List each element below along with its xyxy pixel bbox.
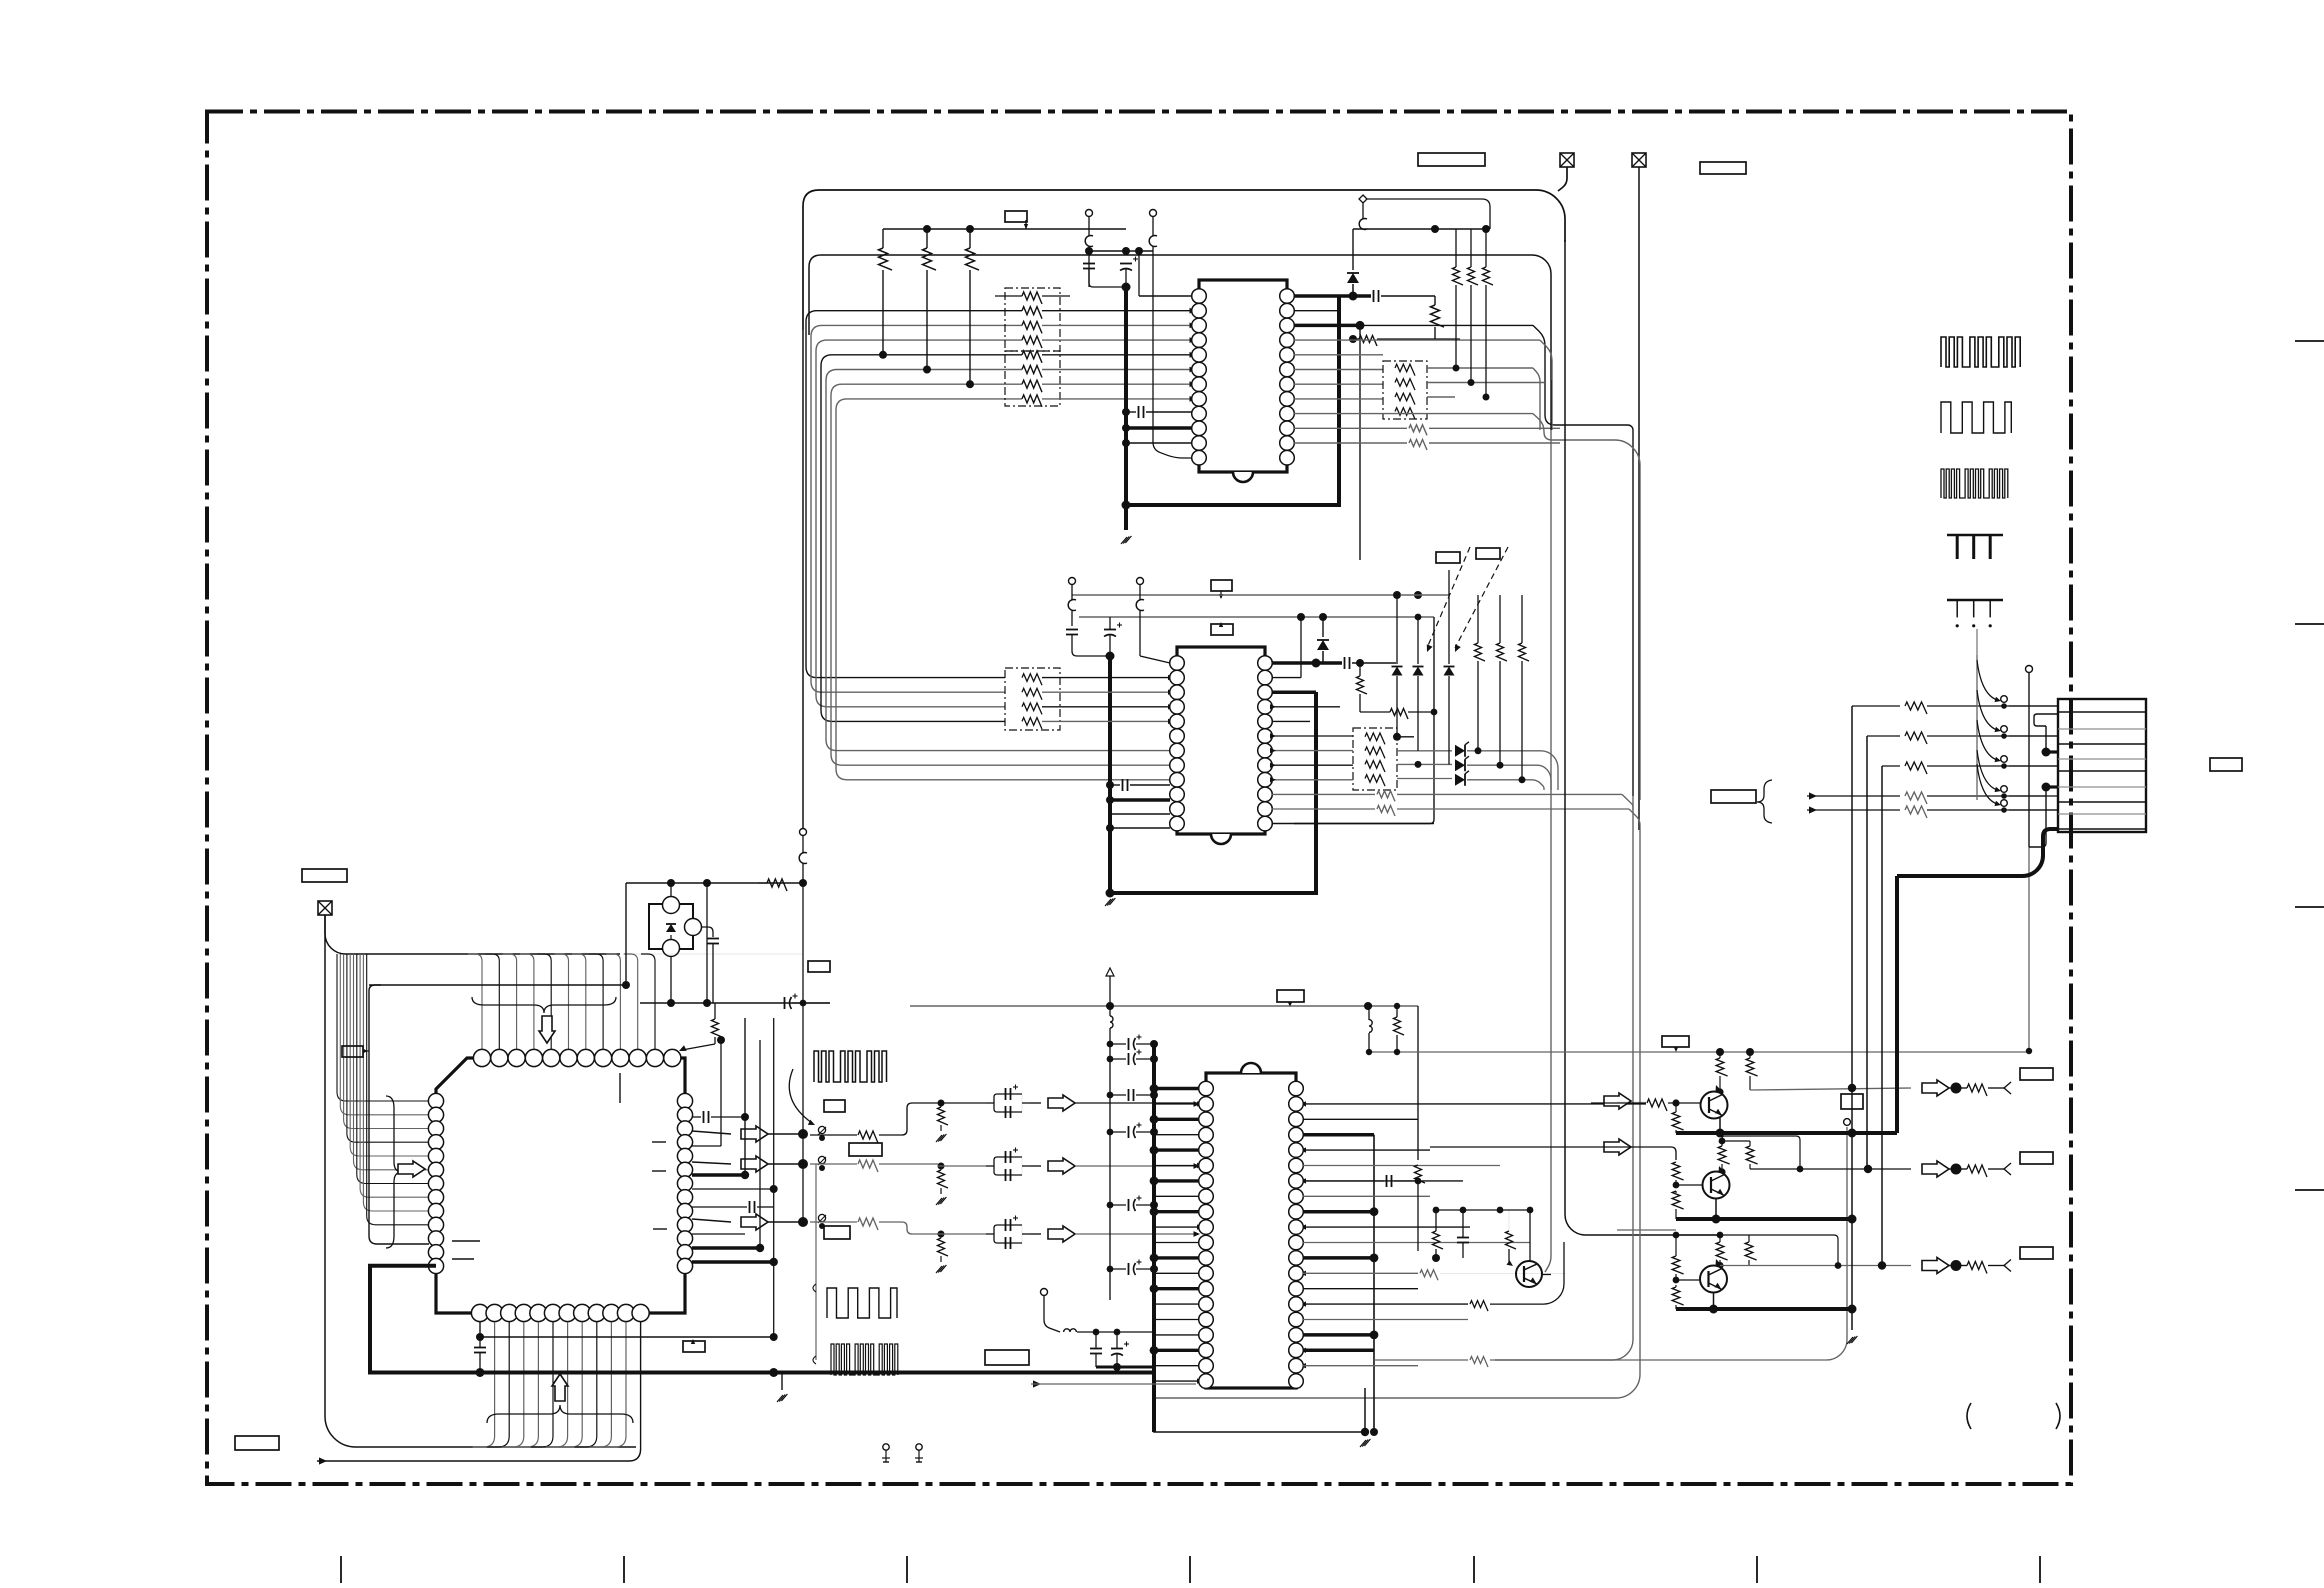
wire C11/C12 to gnd bus [1088,269,1090,279]
wire pin11 IC2 [1110,813,1170,815]
thick gnd wire QFP lower-left [370,1266,436,1373]
switch SW2 [818,1156,825,1163]
Q4 emitter resistor wire [1303,1272,1418,1274]
IC1 pins left [1192,289,1207,304]
cap C23 pin9 [1122,779,1124,791]
wire C21 to gnd bus [1072,645,1110,656]
Q4 collector wire up [1541,1274,1551,1276]
gray rail above IC3 [910,1005,1418,1007]
junction dots on gnd bus [1122,408,1130,416]
Q4 sub-circuit resistors [1433,1231,1444,1249]
label above IC2 [1211,580,1232,591]
wire pin12 IC2 to rect loop [1272,823,1434,825]
row wires w resistors [1852,705,1900,707]
wire w resistor to right low [1303,1349,1374,1353]
IC2 pins10-11 wires w resistors going right [1272,793,1375,795]
top rail wire to pull resistors [883,228,1126,230]
IC2 body [1177,647,1265,834]
wire rail to bias [1716,1048,1724,1056]
vertical drops from connector rows to transistor rows [1851,706,1853,1330]
cap C21 [1066,629,1078,631]
wire pin2 right [1294,310,1339,312]
transistor Q2 [1703,1172,1730,1199]
IC1 pins right [1280,289,1295,304]
bus wire [826,370,1170,751]
right edge registration ticks [2295,340,2324,342]
pack resistor [1022,292,1042,304]
thick wire pin3 IC2 [1272,690,1316,694]
transistor Q1 [1701,1092,1728,1119]
IC3 pins left [1199,1081,1214,1096]
QFP right misc wires [692,1145,721,1147]
wire net under QFP bottom [479,1322,481,1337]
ecap C52 [1111,1348,1123,1350]
corridor curves from IC1 right [1533,325,1633,796]
cap C31 [707,938,719,940]
bead L2 [1149,236,1157,247]
wire T1 down [1088,216,1090,236]
thick IC3 right wires [1303,1133,1374,1137]
waveform W4 pulses [1947,534,2003,537]
big loop left edge down to QFP region [802,330,804,830]
IC2 bottom notch [1211,834,1231,844]
diode trio above pack RD [1392,667,1403,676]
rail corner down right of IC3 [1417,1006,1419,1160]
X1 bottom lead [670,956,672,1003]
connector pins [2058,711,2146,713]
cap pair CP2 [986,1165,994,1167]
corridor vertical x1566 to Q3 top rail [1565,240,1720,1235]
rect loop wire right of IC2 [1294,617,1434,824]
gray vertical from SW2/SW3 to waveforms [815,1164,817,1360]
arrow into Q1 stage [1617,1101,1646,1103]
wires IC2 pins5-9 to pack RD [1272,720,1310,722]
QFP right arrows row2 [692,1162,731,1164]
wire R11 down to bus [882,270,884,355]
IC3 bottom gnd loop [1154,1388,1365,1432]
pack resistor [1022,380,1042,392]
Q2 collector wire [1718,1168,1725,1175]
QFP pins top [473,1049,490,1066]
QFP pins right [677,1093,692,1108]
QFP right arrows row1 [692,1131,731,1134]
resistor pack RA1 box [1005,288,1060,351]
reset node rail [640,1002,830,1004]
middle vertical gnd line [1844,1119,1851,1126]
label CN feed [1711,790,1756,803]
switch SW3 [818,1214,825,1221]
Q3 base lower resistor [1672,1287,1683,1305]
label SW2 [849,1143,882,1156]
vertical resistors trio R23-25 [1475,643,1486,661]
cap C14 [1373,290,1375,302]
wire pin2 right IC2 [1272,677,1301,679]
X-mark terminal J3 [318,901,332,915]
input arrow bottom [1033,1380,1041,1387]
resonator top rail [626,882,803,884]
bead L7 [1064,1329,1077,1332]
IC1 ground bus thick vertical [1124,287,1128,530]
IC2 gnd symbol [1105,899,1111,906]
reset line trunk horizontal [369,984,626,986]
pack resistor [1395,393,1415,404]
bottom bus input wire to pin12 [319,1457,327,1464]
wire bus inner loop (top) [809,255,1551,380]
label on reset vertical [342,1046,363,1057]
label SYSCON [1418,153,1485,166]
resistor on 1418 line [1415,1165,1426,1183]
pack resistor [1365,761,1385,772]
curved branch arrows [1976,655,1978,800]
vertical from reset trunk up to resonator rail [625,883,627,985]
resistor R21v [1357,676,1368,694]
corridor vertical x1633 to IC3 area [1495,796,1633,1360]
pack resistor [1022,674,1042,685]
waveform W7 square [827,1288,897,1318]
brace CN feed [1757,780,1772,823]
QFP body [436,1058,685,1313]
Q3 stage feed [1617,1229,1676,1231]
IC2 pins left [1170,656,1185,671]
thick wire IC2 pin1 right [1272,661,1342,665]
gnd under Q stages [1847,1337,1853,1344]
reset IC X1 box [649,904,693,949]
diode D21 [1317,640,1329,650]
resistor pack RB box [1383,361,1427,419]
pack resistor [1022,718,1042,729]
waveform W8 burst [831,1344,898,1375]
ecap [1128,1126,1130,1138]
switch SW1 [818,1126,825,1133]
QFP pins bottom [471,1304,488,1321]
thick vertical to connector [1895,876,1899,1133]
label under QFP right [683,1341,705,1352]
Q2 emitter thick bus [1676,1217,1852,1221]
wire R12 down to bus [926,270,928,370]
pack resistor [1022,321,1042,333]
bus wire [806,311,1022,678]
wire pin10 long right [1294,413,1533,415]
Q1 base resistor [1591,1102,1646,1104]
block arrow up into QFP bottom [552,1374,568,1401]
pack resistor [1365,733,1385,744]
output labels [2020,1068,2053,1080]
reset wire to QFP pin12 top w resistor [639,1002,641,1004]
label VCC1 above IC1 [1005,211,1027,222]
block arrow into QFP left [398,1161,425,1177]
two test points bottom [883,1444,889,1450]
X1 circle top [663,897,680,914]
Q1 emitter thick bus [1676,1131,1720,1135]
sw contact gap wires [2009,705,2058,707]
dots on IC2 gnd bus [1106,781,1114,789]
wire pin11 w resistor [1294,427,1407,429]
wire pin11 [1126,442,1192,444]
wire pin12 from T2 line [1153,296,1192,458]
vertical wires right of QFP [720,1040,722,1146]
label CN1 [2210,758,2242,771]
thick gnd loop under IC2 [1110,692,1316,893]
QFP right arrows row3 [692,1219,731,1222]
bus trunk J3 continues down left edge [325,915,636,1447]
wire pin12 IC2 [1110,827,1170,829]
wire from X-mark to loop corner [1558,167,1567,191]
cap C33 bottom left [474,1347,486,1349]
gray rail 1 above IC2 [1072,594,1397,596]
wires cap pairs to arrows [938,1102,986,1104]
Q2 base lower resistor [1672,1191,1683,1209]
IC3 top notch [1241,1063,1261,1073]
pack resistor [1022,703,1042,714]
rail above QFP to resonator [626,953,803,955]
X1 circle right [685,919,702,936]
ecap [1128,1038,1130,1050]
IC1 gnd [1121,537,1127,544]
wires pack RD onward right [1396,736,1398,738]
ecap C32 [784,997,786,1009]
left pack RC box [1005,668,1060,730]
QFP right pin wires: cap C41 [692,1116,701,1118]
terminal T2 open circle [1150,210,1157,217]
resistor R14 vertical [1431,305,1445,327]
pull resistor R11 vertical [879,248,893,270]
cap pair CP1 [986,1102,994,1104]
label mid Q area [1841,1094,1863,1109]
dashed pointer arrows [1427,547,1470,648]
pull resistor R12 vertical [923,248,937,270]
label above IC3 [1277,990,1304,1002]
Q1 collector wire right [1750,1088,1911,1090]
resistor R15 to rail [1359,336,1377,347]
resistor R22h [1390,709,1408,720]
label IC3 bottom left [985,1350,1029,1365]
pack resistor [1365,747,1385,758]
pack resistor [1022,351,1042,363]
QFP right cap C42 [692,1206,747,1208]
pack RD box right of IC2 [1353,728,1397,790]
input arrows CN feed [1809,792,1817,799]
label VDD [1700,162,1746,174]
IC3 lower right resistor wires [1303,1303,1468,1305]
pack resistor [1395,379,1415,390]
thick wire pin10 [1126,426,1192,430]
bead L4 [1068,600,1076,611]
thick wire pin3 [1294,324,1360,328]
X-mark terminal J2 [1632,153,1646,167]
wire bus outer loop (top) [803,190,1565,330]
Q1 base lower resistor [1672,1112,1683,1130]
reset distribution vertical x803 [802,883,804,1222]
label SW3 [824,1226,850,1239]
cap C51 [1090,1348,1102,1350]
wire pin12 w resistor [1294,442,1407,444]
waveform W1 [1941,337,2020,367]
wire pin1 left [1139,295,1192,297]
transistor Q4 [1516,1261,1542,1287]
terminal T5 + bead above x803 [800,829,807,836]
cap pair CP3 [986,1233,994,1235]
ecap [1128,1089,1130,1101]
waveform W6 burst near QFP [814,1051,887,1082]
top rail right of IC1 [1353,228,1486,230]
divider resistor RV2 [938,1170,949,1188]
three vertical resistors right R16-R18 [1453,267,1464,285]
brace left bus [386,1096,402,1248]
pack stub row top [995,295,1022,297]
IC3 left pin stub wires [1154,1087,1199,1090]
terminal T3 [1069,578,1076,585]
bus trunk from J3 (top of QFP) [325,915,620,954]
vertical wire x1360 down [1359,325,1361,560]
label bottom left corner [235,1436,279,1450]
bus wire [836,399,1170,780]
Q1 bias resistors [1716,1058,1727,1076]
resistor R52 [1394,1017,1405,1035]
bead L8 [1369,1020,1372,1033]
connector CN1 body [2058,699,2146,832]
IC1 body [1199,280,1287,472]
Q3 collector wire [1716,1262,1723,1269]
bead L1 [1085,236,1093,247]
IC2 ground bus thick [1108,656,1112,893]
wires into pins7-9 gray [1169,750,1171,752]
wire T4 to pin1 [1140,656,1170,663]
bead L3 [1359,219,1367,230]
wire power mark down [1109,976,1111,1006]
block arrow down into QFP top [539,1016,555,1043]
corridor vertical x1551 lower [1550,380,1552,430]
left bus branches to QFP left pins [337,954,429,1101]
terminal T4 [1137,578,1144,585]
pack resistor [1022,366,1042,378]
pack resistor [1022,395,1042,407]
wires pack RB to right corridor [1427,367,1533,369]
divider resistor RV3 [938,1238,949,1256]
IC3 right side wires [1303,1103,1646,1105]
IC3 thick left bus [1152,1044,1156,1432]
brace bottom bus [487,1405,633,1423]
wires pins5-9 right to pack RB [1294,354,1383,356]
terminal above connector [2026,666,2033,673]
curved arrow from W6 to switch [789,1069,812,1123]
capacitor C11 [1083,263,1095,265]
corridor wire ends pins 11/12 [1559,427,1561,429]
cap C13 on pin9 [1138,406,1140,418]
transistor Q3 [1700,1266,1727,1293]
wire from TP1 [1367,199,1490,229]
X1 zener inside [666,924,676,932]
wires RC to IC2 pins 2-5 [1042,677,1170,679]
wire rail at y251 [1089,250,1153,252]
ecap [1128,1199,1130,1211]
X1 circle bottom [663,940,680,957]
pack resistor [1365,775,1385,786]
IC3 gnd [1360,1440,1366,1447]
label top of Q1 stage [1662,1036,1689,1047]
thick bottom wire to IC3 [368,1371,1154,1375]
label above IC2 b [1211,624,1233,635]
ecap [1128,1053,1130,1065]
gnd wire under caps [1096,1366,1154,1369]
Q3 emitter thick bus [1676,1307,1852,1311]
divider resistor RV1 [938,1107,949,1125]
IC3 pins right [1289,1081,1304,1096]
top bus branches to QFP top pins [468,954,482,1049]
Q1 collector node [1716,1088,1723,1095]
wire R13 down to bus [969,270,971,384]
IC1 bottom notch [1233,472,1253,482]
corridor vertical x1640 to IC3 bottom [1154,830,1640,1398]
gnd stub [781,1373,783,1391]
arrowheads on IC3 right pins [1300,1101,1306,1106]
wires zeners to corridor curves [1467,751,1558,790]
IC2 pins right [1258,656,1273,671]
QFP pins left [428,1093,443,1108]
IC3 bottom right gray resist wires [1374,1359,1468,1361]
label near J3 [302,869,347,882]
bottom bus branches from trunk to QFP bottom pins [473,1322,495,1447]
gray rail 2 above IC2 [1079,616,1434,618]
diode D11 [1347,273,1359,283]
QFP thick wire row3 [692,1173,745,1177]
thick gnd loop under IC1 [1126,296,1339,505]
wires pack RA to IC1 pins 2-8 [1042,310,1192,312]
bus wire [811,325,1022,692]
brace top bus [472,997,616,1013]
page border (dash-dot frame) [207,112,2071,1485]
waveform W2 [1941,402,2011,433]
wire from W5 down to connector arrows [1976,629,1978,655]
bus wire [831,384,1170,765]
terminal T1 open circle [1086,210,1093,217]
arrowheads on input pins [1197,1101,1203,1106]
pack resistor [1022,688,1042,699]
wire T2 down [1152,216,1154,236]
wire pin4 right gray [1294,339,1540,341]
Q3 bias resistors [1716,1242,1727,1260]
Q2 stage top wire [1591,1147,1676,1160]
resistor pack RA2 box [1005,351,1060,406]
sideways zener diodes Z1-Z3 [1455,745,1465,757]
triangle power mark [1106,968,1114,976]
Q3 upper resistor [1672,1256,1683,1274]
cap C24 [1344,657,1346,669]
Q2 bias resistors [1718,1146,1729,1164]
diamond terminal TP1 [1359,195,1367,203]
vertical wire from J2 running down right corridor [1638,167,1640,830]
wire pin3 to corridor [1360,324,1533,326]
thick wire IC1 pin1 right [1294,294,1371,298]
output arrows and pads [1922,1080,1949,1096]
label left of x803 [808,961,830,972]
bus wire [816,340,1022,707]
waveform W5 pulses dotted [1947,599,2003,602]
pack resistor [1395,408,1415,419]
pull resistor R13 vertical [966,248,980,270]
supply rail into Q stage [1369,1051,2029,1053]
bottom registration ticks [340,1556,342,1583]
parentheses bottom right [1967,1403,1971,1429]
resonator circuit connection down to QFP area rails [706,883,708,1003]
label SW1 [824,1100,845,1112]
X1 right lead [701,927,713,937]
X-mark terminal J1 [1560,153,1574,167]
reset line left vertical [369,985,429,1244]
ecap [1128,1263,1130,1275]
IC3 bottom left input [1041,1289,1048,1296]
IC3 right misc gray wires [1303,1118,1418,1120]
pack resistor [1022,307,1042,319]
